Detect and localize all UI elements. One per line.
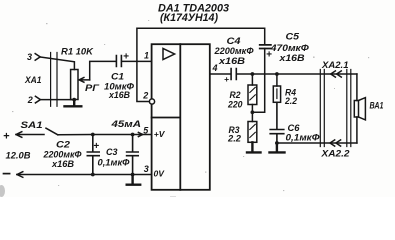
ground under R3 [247,142,261,152]
connector XA2.1 arrows [321,60,349,77]
wire XA1.2 to R1 bottom [40,99,74,101]
svg-text:х16В: х16В [51,159,75,169]
amplifier triangle [163,48,175,59]
title DA1 TDA2003 [158,3,229,24]
resistor R1 potentiometer [61,47,100,100]
svg-text:C5: C5 [286,32,301,42]
node C3 top [131,133,135,137]
svg-text:х16В: х16В [278,53,305,63]
svg-text:+: + [3,131,10,143]
wire 0V rail to pin 3 [17,174,152,176]
node R4 top [275,72,279,76]
svg-text:+V: +V [154,129,166,139]
wire wiper to C1 [90,61,116,80]
resistor R4 2.2 [273,74,297,106]
wire C6 node to XA2.2 [277,142,357,144]
svg-text:0V: 0V [154,169,166,179]
pin 3 label [144,164,149,174]
svg-text:2: 2 [142,91,148,101]
svg-text:3: 3 [27,52,32,62]
svg-text:1: 1 [144,50,149,60]
pin 4 label [212,63,218,73]
svg-text:C4: C4 [227,36,241,46]
pin labels inside IC [154,129,166,179]
wire +12V rail to pin 5 [58,134,152,136]
pin 2 inverting circle [149,99,154,104]
svg-text:C1: C1 [111,72,124,82]
svg-text:х16В: х16В [108,90,130,100]
connector XA2.2 arrows [320,140,349,159]
node junction R1 bottom [72,98,76,102]
svg-text:2200мкФ: 2200мкФ [43,149,82,159]
node C6 bottom [275,141,279,145]
wire output to speaker [237,73,357,75]
connector XA1 label [24,75,41,85]
wire to speaker BA1 [356,74,358,143]
svg-text:ХА2.1: ХА2.1 [321,60,349,70]
switch SA1 [3,120,58,160]
pin 1 label [144,50,149,60]
connector XA2 boundary lines [320,70,351,147]
op-amp U1 DA1 body [152,44,210,190]
svg-text:C2: C2 [56,140,70,150]
svg-text:4: 4 [212,63,218,73]
svg-text:45мА: 45мА [110,119,141,129]
svg-text:2.2: 2.2 [284,96,297,106]
svg-text:2.2: 2.2 [227,133,241,143]
wire C1 to pin 1 [122,60,152,62]
svg-text:(К174УН14): (К174УН14) [160,12,218,24]
capacitor C3 0.1uF [98,135,139,175]
svg-text:2200мкФ: 2200мкФ [213,46,253,56]
node R2 R3 junction [251,105,253,113]
svg-text:ВА1: ВА1 [370,101,384,111]
svg-text:3: 3 [144,164,149,174]
pin 2 label [142,91,148,101]
capacitor C5 470uF [260,32,309,63]
svg-text:R1 10K: R1 10K [61,47,95,57]
svg-text:12.0В: 12.0В [6,150,32,160]
node R2 top [251,72,255,76]
svg-text:РГ: РГ [85,83,100,93]
minus terminal [4,172,23,178]
connector XA1 pin 3 [27,52,40,62]
svg-text:0,1мкФ: 0,1мкФ [286,132,320,142]
wire XA1.3 to R1 top [40,57,74,70]
node C2 bottom [91,173,95,177]
pin 4 output wire [210,73,231,75]
wiper arrow of R1 [79,78,90,83]
svg-text:0,1мкФ: 0,1мкФ [98,157,130,167]
resistor R3 2.2 [227,112,257,143]
current arrow 45mA at pin 5 [138,132,142,136]
ground under C6 [270,143,285,152]
node C3 bottom [131,173,135,177]
node C2 top [91,133,95,137]
speaker BA1 [354,98,383,120]
svg-text:ХА1: ХА1 [24,75,41,85]
svg-text:220: 220 [227,100,242,110]
capacitor C2 2200uF [43,135,100,175]
scan noise specks (decorative) [0,20,369,197]
svg-text:х16В: х16В [218,56,246,66]
svg-text:ХА2.2: ХА2.2 [320,149,349,159]
connector XA1 boundary lines [51,53,57,107]
ground under C3 [127,175,141,185]
capacitor C6 0.1uF [270,102,319,143]
capacitor C1 10uF [104,52,134,101]
svg-text:R2: R2 [230,90,241,100]
svg-text:+: + [224,74,229,84]
connector XA1 pin 2 [27,95,41,105]
capacitor C4 2200uF [213,36,253,84]
ground under R1 [65,100,82,107]
svg-text:C3: C3 [106,147,118,157]
resistor R2 220 [227,74,257,110]
svg-text:470мкФ: 470мкФ [270,43,309,53]
wire C5 down to R2 R3 node [253,49,265,113]
wire pin 2 feedback to C5 [137,28,265,101]
svg-text:2: 2 [27,95,33,105]
svg-text:+: + [93,141,99,152]
svg-text:SA1: SA1 [21,120,43,130]
